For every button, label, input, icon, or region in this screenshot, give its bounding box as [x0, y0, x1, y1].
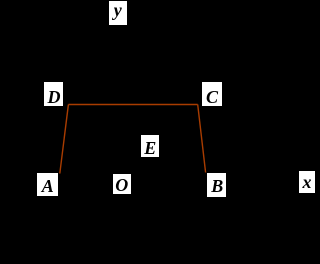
- segment CB: [198, 105, 206, 173]
- label C: [202, 82, 222, 106]
- segment AD: [60, 105, 69, 174]
- label y: [109, 1, 127, 25]
- label D: [44, 82, 63, 106]
- label E: [141, 135, 159, 157]
- label O: [113, 174, 131, 194]
- label A: [37, 173, 58, 196]
- label B: [207, 173, 226, 197]
- label x: [299, 171, 315, 193]
- segment DC: [68, 104, 197, 106]
